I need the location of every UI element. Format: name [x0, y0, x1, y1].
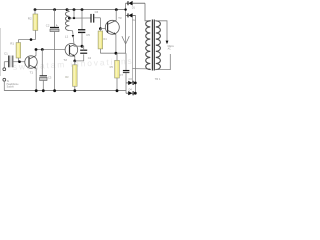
- svg-text:C3: C3: [48, 75, 52, 79]
- wire C3 riser: [41, 50, 43, 76]
- node emitter R3: [73, 60, 76, 63]
- node rail diode bus: [124, 8, 126, 10]
- svg-text:Headphone: Headphone: [7, 84, 20, 86]
- diode D2: [126, 13, 137, 22]
- svg-text:C6: C6: [95, 10, 99, 14]
- node rail-C2: [53, 8, 56, 11]
- node rail R3: [73, 89, 76, 92]
- resistor R2: [28, 10, 38, 40]
- svg-text:C4: C4: [88, 56, 92, 60]
- capacitor C6: [91, 10, 100, 23]
- wire bottom rail: [4, 90, 126, 92]
- wire bias line: [18, 39, 35, 41]
- svg-text:R4: R4: [103, 37, 107, 41]
- node tap-74: [73, 17, 75, 19]
- wire T1 collector: [35, 50, 37, 56]
- node bias: [30, 38, 33, 41]
- inductor L1: [65, 10, 70, 39]
- wire T3 emitter: [115, 34, 117, 53]
- diode D1: [126, 1, 145, 10]
- wire primary bottom: [133, 68, 151, 70]
- capacitor C1: [4, 52, 29, 68]
- capacitor C7: [120, 53, 130, 93]
- transistor T2: [63, 44, 77, 62]
- svg-text:C2: C2: [46, 23, 50, 27]
- resistor R4: [98, 29, 107, 54]
- node rail T1e: [35, 89, 38, 92]
- arrow mains: [166, 41, 169, 45]
- svg-text:C7: C7: [120, 73, 124, 77]
- svg-text:AC: AC: [168, 48, 172, 51]
- node rail-82: [81, 8, 84, 11]
- svg-text:T1: T1: [30, 70, 34, 74]
- wire coupling T1-T2: [36, 49, 69, 51]
- wire L1 bottom: [69, 30, 74, 45]
- wire tap line: [69, 17, 90, 19]
- node emitter bus: [115, 52, 118, 55]
- wire T2 emitter: [74, 56, 76, 61]
- transformer TR1 secondary: [156, 21, 161, 70]
- resistor R5: [110, 53, 120, 90]
- terminal input top: [3, 62, 6, 71]
- transformer core: [152, 20, 154, 71]
- wire D2 drop: [135, 15, 137, 93]
- svg-text:C1: C1: [4, 52, 8, 56]
- node T1 collector: [35, 48, 38, 51]
- left edge artifact: [0, 28, 1, 76]
- capacitor C2: [46, 10, 59, 91]
- node rail C3: [42, 89, 45, 92]
- svg-text:C5: C5: [86, 33, 90, 37]
- wire base node to T3: [100, 28, 107, 30]
- wire T2 collector to node: [74, 45, 82, 46]
- node L1 tap: [68, 17, 71, 20]
- node C1-R1: [18, 60, 21, 63]
- label mains: [168, 46, 175, 51]
- node rail-L1: [66, 8, 69, 11]
- capacitor C5: [78, 30, 90, 47]
- node C3 tap: [41, 48, 44, 51]
- label headphone: [7, 81, 20, 88]
- node rail R5: [116, 89, 119, 92]
- wire emitter to C4: [75, 54, 84, 61]
- node D3: [134, 82, 137, 85]
- svg-text:T3: T3: [118, 16, 122, 20]
- diode D3: [126, 78, 136, 85]
- wire diode bus: [125, 3, 127, 53]
- transistor T1: [25, 56, 37, 75]
- wire C6 to base node: [99, 18, 101, 29]
- wire emitter bus: [100, 52, 126, 54]
- arrow current: [122, 36, 129, 44]
- svg-text:Mains: Mains: [168, 46, 175, 48]
- node T3 base: [99, 27, 102, 30]
- junction arrow L1: [72, 35, 75, 38]
- node D4: [134, 92, 137, 95]
- svg-text:R5: R5: [110, 65, 114, 69]
- capacitor C3: [40, 75, 52, 90]
- svg-text:L1: L1: [65, 34, 69, 38]
- transistor T3: [105, 16, 122, 34]
- svg-text:R1: R1: [10, 42, 14, 46]
- node C5-C4: [81, 45, 84, 48]
- wire top rail: [35, 9, 126, 11]
- resistor R1: [10, 40, 21, 62]
- node rail-R2: [34, 8, 37, 11]
- svg-text:R3: R3: [65, 75, 69, 79]
- wire rail to tap: [73, 10, 75, 18]
- node rail-74: [73, 8, 76, 11]
- diode D4: [126, 89, 136, 96]
- svg-text:T2: T2: [63, 58, 67, 62]
- wire T3 collector: [115, 10, 117, 21]
- svg-text:R2: R2: [28, 17, 32, 21]
- svg-text:TR 1: TR 1: [155, 77, 161, 81]
- wire secondary bottom: [156, 54, 171, 70]
- node rail C2: [53, 89, 56, 92]
- svg-text:Socket: Socket: [7, 86, 14, 89]
- wire D1 to primary top: [145, 3, 150, 21]
- wire rail to C5: [81, 10, 83, 30]
- transformer TR1 primary: [146, 21, 151, 70]
- wire D3 drop: [132, 18, 134, 83]
- terminal input bottom: [3, 78, 6, 90]
- resistor R3: [65, 61, 77, 91]
- wire T1 emitter: [35, 68, 37, 90]
- node rail-T3: [115, 8, 118, 11]
- capacitor C4: [80, 46, 91, 60]
- wire secondary top: [156, 21, 167, 41]
